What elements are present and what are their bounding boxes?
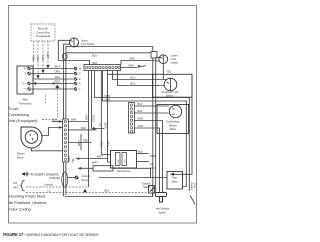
lower limit switch L-LS	[159, 54, 179, 65]
to a/c condensing note	[9, 106, 39, 123]
wire ORN run 1 to sensor	[95, 71, 190, 192]
svg-text:Y: Y	[79, 87, 81, 91]
wire bottom horizontal	[99, 177, 167, 179]
svg-text:Upper: Upper	[81, 38, 88, 42]
wire long vertical run B	[155, 58, 157, 193]
wire CAS to gas valve (arrow)	[170, 97, 192, 176]
wire YEL thermostat to board	[31, 85, 74, 89]
svg-text:Combustion Air: Combustion Air	[161, 90, 178, 94]
svg-text:BLK: BLK	[105, 188, 110, 192]
svg-text:Ground: Ground	[82, 174, 91, 178]
wire WHT connector to ignitor 2	[135, 124, 160, 193]
svg-text:C: C	[79, 77, 81, 81]
wire BLK connector to motor	[135, 102, 169, 106]
wire LINE drop to transformer	[104, 74, 111, 162]
wire blower bottom to strip	[32, 148, 63, 151]
wire GRY pair to strip	[58, 61, 97, 66]
wire BRN strip right	[68, 117, 88, 121]
svg-text:Screw: Screw	[82, 178, 89, 182]
wire COOL drop	[91, 71, 104, 129]
wire upper limit lead 1	[58, 40, 69, 60]
junction arrow	[93, 127, 97, 130]
incoming power note	[9, 194, 48, 212]
svg-text:Motor: Motor	[170, 127, 177, 131]
wire a/c dashed	[42, 89, 57, 120]
svg-text:Unit (If equipped): Unit (If equipped)	[9, 118, 39, 123]
blend air wire BLK (dashed)	[36, 41, 40, 79]
wire BLU strip to CAS circle upper	[113, 71, 167, 80]
sensor rod labels	[189, 182, 196, 190]
svg-text:BLK: BLK	[81, 126, 86, 130]
wire GRN with ground arrow	[121, 63, 146, 68]
svg-text:VAC: VAC	[150, 166, 155, 170]
svg-text:FIGURE 17 -: FIGURE 17 -	[3, 232, 26, 237]
thermostat terminal T	[24, 72, 30, 76]
wire bottom run to switch	[65, 193, 153, 197]
svg-text:WHT: WHT	[138, 124, 144, 128]
115 VAC label and brace	[13, 181, 25, 191]
svg-text:Y: Y	[24, 87, 26, 91]
svg-text:Gas: Gas	[172, 176, 177, 180]
upper limit switch U-LS	[70, 38, 95, 47]
combustion blower motor box	[157, 105, 189, 134]
wire ORN thermostat to board	[31, 69, 74, 73]
blend air control box (dashed)	[31, 24, 55, 41]
svg-text:Incoming Power Must: Incoming Power Must	[9, 194, 47, 199]
svg-text:YEL: YEL	[71, 158, 75, 163]
svg-text:COOL: COOL	[91, 114, 95, 122]
svg-text:Blower: Blower	[17, 152, 25, 156]
terminal R	[74, 82, 81, 86]
svg-text:Blend Air: Blend Air	[38, 27, 48, 31]
wire WHT connector to ignitor	[135, 117, 163, 193]
svg-text:YEL: YEL	[167, 70, 172, 74]
svg-text:BLU: BLU	[131, 82, 136, 86]
svg-text:Limit Switch: Limit Switch	[81, 42, 95, 46]
wire strip to CAS box top	[108, 71, 153, 75]
svg-text:R: R	[79, 82, 81, 86]
wire long vertical run A	[152, 58, 154, 197]
wire ORN run 2 to gas valve right lead	[103, 71, 187, 187]
svg-text:Valve: Valve	[171, 180, 178, 184]
svg-text:LINE: LINE	[104, 122, 108, 128]
svg-text:COM: COM	[150, 154, 156, 158]
svg-text:Lower: Lower	[171, 54, 178, 58]
svg-text:BLK: BLK	[55, 75, 60, 79]
wire top run A	[66, 47, 153, 52]
svg-text:GRN: GRN	[68, 156, 72, 162]
svg-text:System: System	[142, 181, 151, 185]
svg-text:Motor: Motor	[17, 155, 24, 159]
svg-text:WHT: WHT	[97, 154, 103, 158]
svg-text:To Earth Ground: To Earth Ground	[31, 172, 59, 177]
svg-text:WIRING DIAGRAM FOR DGAT SE SER: WIRING DIAGRAM FOR DGAT SE SERIES	[27, 233, 99, 237]
wire YEL lower limit to comb air switch	[163, 64, 172, 79]
svg-text:Limit: Limit	[171, 57, 177, 61]
svg-text:ORN: ORN	[41, 55, 45, 61]
wire BLK blend-air to board	[34, 75, 74, 79]
wire L1 / BLK (dashed)	[26, 188, 149, 192]
wire loop to ground screw	[68, 177, 75, 179]
svg-text:BLK: BLK	[138, 102, 143, 106]
wire blower to strip pin2	[42, 128, 63, 136]
wire transformer 24VAC	[137, 162, 156, 170]
wire upper limit lead 2	[64, 44, 70, 119]
wire WHT short vertical	[77, 134, 81, 150]
svg-text:BLU: BLU	[92, 54, 97, 58]
svg-text:ORN: ORN	[54, 69, 60, 73]
svg-text:LINE: LINE	[118, 159, 120, 164]
svg-text:Ignitor: Ignitor	[159, 210, 166, 214]
svg-text:Switch: Switch	[171, 61, 179, 65]
wire RED thermostat to board	[31, 79, 74, 83]
svg-text:(If equipped): (If equipped)	[36, 34, 50, 38]
vertical connector CN1	[129, 103, 135, 134]
wire ORG strip to lower limit	[121, 56, 156, 64]
wire lower limit lead 2	[156, 60, 160, 62]
transformer T1	[111, 151, 137, 173]
wire WHT thermostat to board	[31, 64, 74, 68]
svg-text:Combustion: Combustion	[166, 120, 180, 124]
wire BLU top run B	[66, 53, 151, 58]
wire WHT drop long	[85, 71, 89, 188]
svg-text:BLK: BLK	[36, 56, 40, 61]
svg-text:RED: RED	[83, 138, 89, 142]
svg-text:To a/c: To a/c	[9, 106, 19, 111]
ground loop oval	[62, 172, 68, 187]
svg-text:Blower: Blower	[169, 123, 177, 127]
svg-text:Control Box: Control Box	[36, 30, 50, 34]
svg-text:BRN: BRN	[71, 117, 77, 121]
combustion air switch box	[153, 74, 193, 97]
thermostat terminal R	[24, 67, 31, 71]
wire L1 drop to transformer	[98, 71, 111, 155]
svg-text:WHT: WHT	[85, 114, 89, 120]
wire pair right to vertical connector	[65, 49, 67, 119]
svg-text:VAC: VAC	[13, 186, 18, 190]
wire RED strip right	[68, 138, 91, 142]
thermostat terminal Y	[24, 87, 30, 91]
svg-text:Rod: Rod	[192, 183, 196, 188]
wire BLU transformer right	[137, 149, 156, 158]
svg-text:RED: RED	[55, 79, 61, 83]
svg-text:BLU: BLU	[138, 149, 143, 153]
wire BLU strip to CAS circle lower	[118, 71, 165, 86]
svg-text:WHT: WHT	[92, 160, 98, 164]
wall thermostat	[17, 66, 33, 105]
svg-text:115: 115	[13, 181, 18, 185]
terminal W	[74, 67, 82, 71]
wire WHT stub upper	[76, 154, 108, 160]
blend air wire WHT (dashed)	[46, 41, 50, 69]
connector loop top	[62, 53, 67, 59]
ground screw	[75, 174, 91, 182]
terminal G	[74, 72, 81, 76]
svg-text:Hot Surface: Hot Surface	[156, 207, 170, 211]
svg-text:Be Polarized. Observe: Be Polarized. Observe	[9, 200, 48, 205]
connector plug P1	[151, 52, 157, 59]
svg-text:G: G	[79, 72, 81, 76]
svg-text:Neutral: Neutral	[45, 182, 54, 186]
svg-text:BLU: BLU	[131, 76, 136, 80]
terminal Y	[74, 87, 81, 91]
blend air wire RED (dashed)	[32, 41, 37, 85]
wire Neutral (dashed)	[26, 182, 89, 187]
to earth ground symbol	[22, 172, 59, 177]
terminal strip TB1 (horizontal)	[84, 65, 121, 71]
svg-text:Color Coding: Color Coding	[9, 207, 31, 212]
svg-text:WHT: WHT	[46, 52, 50, 58]
system switch SW1	[142, 181, 155, 193]
wire lower limit lead 1	[156, 56, 160, 58]
wire BLK connector to motor 2	[135, 109, 169, 113]
svg-text:GRN: GRN	[128, 63, 134, 67]
caption	[3, 232, 99, 237]
svg-text:Wall: Wall	[23, 98, 28, 102]
svg-text:BLK: BLK	[106, 141, 110, 146]
hot surface ignitor HSI	[156, 193, 170, 215]
svg-text:WHT: WHT	[138, 117, 144, 121]
wire BLK strip right	[68, 126, 96, 130]
wire pair strip bottom to ground loop	[63, 162, 65, 197]
gas valve GV1	[167, 172, 183, 190]
blend air wire ORN (dashed)	[41, 41, 45, 73]
thermostat terminal G+	[23, 82, 31, 86]
svg-text:ORG: ORG	[129, 56, 135, 60]
svg-text:24V: 24V	[124, 159, 126, 163]
terminal C	[74, 77, 81, 81]
sensor rod	[190, 196, 195, 205]
blower motor BM1	[17, 127, 42, 159]
svg-text:BLU: BLU	[100, 141, 104, 146]
svg-text:RED: RED	[32, 55, 36, 61]
vertical board strip TB2	[63, 119, 69, 162]
svg-text:R: R	[24, 67, 26, 71]
svg-text:WHT: WHT	[54, 64, 60, 68]
wire WHT stub lower with fuse	[78, 160, 151, 177]
svg-text:BLK: BLK	[138, 109, 143, 113]
svg-text:Switch: Switch	[166, 93, 174, 97]
svg-text:Thermostat: Thermostat	[19, 101, 32, 105]
svg-text:Transformer: Transformer	[117, 169, 131, 173]
svg-text:G+: G+	[23, 82, 27, 86]
svg-text:Condensing: Condensing	[9, 112, 29, 117]
wire BLU stub strip pin1	[52, 117, 63, 123]
